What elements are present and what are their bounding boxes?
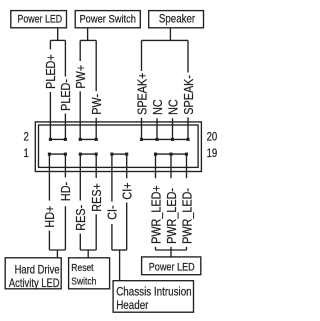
svg-text:NC: NC: [165, 99, 180, 115]
wire PLED- lower segment to pin 4: [64, 114, 66, 140]
svg-text:SPEAK+: SPEAK+: [134, 73, 149, 115]
stub to Hard Drive box: [56, 250, 58, 258]
wire: Power LED bracket: [50, 39, 65, 41]
stub to bottom Power LED box: [170, 250, 172, 257]
svg-text:2: 2: [24, 131, 29, 144]
wire RES- lower segment: [79, 234, 81, 250]
bracket Power LED bottom trio: [156, 249, 187, 251]
wire NC1 stub to pin 16: [156, 118, 158, 139]
wire HD- upper segment from pin 3: [64, 154, 66, 177]
wire RES- upper segment from pin 5: [79, 154, 81, 200]
header outer rectangle: [35, 122, 201, 172]
svg-text:PWR_LED-: PWR_LED-: [164, 188, 179, 244]
pin 4: [64, 138, 67, 141]
svg-text:20: 20: [207, 131, 218, 144]
svg-text:Power LED: Power LED: [149, 262, 195, 274]
label box Hard Drive Activity LED: [5, 258, 61, 289]
wire CI- lower segment: [111, 224, 113, 250]
svg-text:RES-: RES-: [73, 205, 88, 231]
pin 20: [186, 138, 189, 141]
wire CI+ lower segment: [126, 203, 128, 251]
svg-text:PW-: PW-: [89, 94, 104, 115]
pin squares: [48, 138, 190, 156]
svg-text:1: 1: [24, 147, 29, 160]
header inner rectangle: [39, 125, 199, 167]
pin group link pins 2-4: [50, 138, 65, 140]
pin 16: [155, 138, 158, 141]
svg-text:Activity LED: Activity LED: [9, 277, 60, 290]
svg-text:CI-: CI-: [105, 205, 120, 219]
svg-text:CI+: CI+: [119, 182, 134, 199]
pin 8: [95, 138, 98, 141]
wire: Speaker box stub: [169, 28, 171, 41]
wire HD+ lower segment: [48, 231, 50, 250]
wire SPEAK+ upper segment: [141, 40, 143, 71]
wire PW- upper segment: [95, 40, 97, 91]
pin 18: [171, 138, 174, 141]
wire PLED+ lower segment to pin 2: [49, 92, 51, 139]
wire PWR_LED-2 lower segment: [186, 247, 188, 250]
stub to Chassis box: [119, 250, 121, 281]
wire NC2 stub to pin 18: [172, 118, 174, 139]
svg-text:19: 19: [207, 147, 218, 160]
pin 3: [64, 153, 67, 156]
wire RES+ upper segment from pin 7: [95, 154, 97, 178]
wire PWR_LED- upper segment from pin 17: [170, 154, 172, 178]
wire PWR_LED- lower segment: [170, 247, 172, 250]
pin 6: [79, 138, 82, 141]
pin group link pins 9-11: [112, 153, 127, 155]
pin 1: [48, 153, 51, 156]
svg-text:NC: NC: [150, 99, 165, 115]
wire PW- lower segment to pin 8: [95, 118, 97, 140]
wire PWR_LED+ upper segment from pin 15: [155, 154, 157, 178]
wire PLED- upper segment: [64, 40, 66, 76]
pin group link pins 5-7: [80, 153, 96, 155]
pin 9: [110, 153, 113, 156]
svg-text:Power Switch: Power Switch: [79, 14, 136, 26]
wire HD- lower segment: [64, 206, 66, 250]
svg-text:Chassis Intrusion: Chassis Intrusion: [116, 286, 191, 299]
pin 2: [49, 138, 52, 141]
svg-text:RES+: RES+: [89, 183, 104, 212]
wire CI+ upper segment from pin 11: [126, 154, 128, 178]
svg-text:HD+: HD+: [42, 206, 57, 228]
wire SPEAK- upper segment: [187, 40, 189, 72]
wire: Speaker bracket: [142, 39, 189, 41]
bracket Hard Drive pair: [49, 249, 65, 251]
bracket Chassis pair: [112, 249, 127, 251]
bracket Reset pair: [80, 249, 96, 251]
pin 11: [125, 153, 128, 156]
label box Speaker: [149, 11, 204, 28]
svg-text:PWR_LED+: PWR_LED+: [148, 185, 163, 244]
wire PW+ lower segment to pin 6: [79, 91, 81, 139]
pin 19: [185, 153, 188, 156]
wire PWR_LED+ lower segment: [155, 247, 157, 250]
svg-text:SPEAK-: SPEAK-: [181, 75, 196, 115]
svg-text:PLED+: PLED+: [43, 54, 58, 89]
label box Chassis Intrusion Header: [113, 281, 193, 313]
svg-text:Switch: Switch: [71, 276, 96, 288]
svg-text:Speaker: Speaker: [159, 13, 196, 26]
wire RES+ lower segment: [95, 214, 97, 250]
pin 7: [95, 153, 98, 156]
pin group link pins 14-20: [142, 138, 189, 140]
svg-text:PW+: PW+: [73, 65, 88, 89]
svg-text:Hard Drive: Hard Drive: [15, 264, 60, 277]
wire PWR_LED-2 upper segment from pin 19: [186, 154, 188, 178]
wire HD+ upper segment from pin 1: [48, 154, 50, 201]
label box Power Switch: [75, 11, 140, 28]
svg-text:Header: Header: [116, 299, 149, 312]
wire CI- upper segment from pin 9: [111, 154, 113, 201]
pin group link pins 6-8: [80, 138, 96, 140]
pin 15: [154, 153, 157, 156]
wire SPEAK- lower segment to pin 20: [187, 117, 189, 139]
svg-text:PLED-: PLED-: [58, 79, 73, 111]
label box Power LED (top): [11, 11, 67, 28]
pin 17: [169, 153, 172, 156]
svg-text:Power LED: Power LED: [17, 14, 62, 26]
svg-text:Reset: Reset: [71, 262, 94, 274]
wire: Power Switch bracket: [80, 39, 96, 41]
wire PLED+ upper segment: [49, 40, 51, 49]
svg-text:HD-: HD-: [58, 182, 73, 201]
label box Reset Switch: [69, 258, 110, 289]
stub to Reset box: [87, 250, 89, 258]
pin group link pins 15-17-19: [156, 153, 187, 155]
pin 14: [140, 138, 143, 141]
wire PW+ upper segment: [79, 40, 81, 61]
wire: Power LED box stub: [57, 28, 59, 41]
wire: Power Switch box stub: [87, 28, 89, 41]
wire SPEAK+ lower segment to pin 14: [141, 118, 143, 140]
pin 5: [79, 153, 82, 156]
label box Power LED (bottom): [142, 257, 201, 275]
svg-text:PWR_LED-: PWR_LED-: [179, 188, 194, 244]
pin group link pins 1-3: [49, 153, 65, 155]
